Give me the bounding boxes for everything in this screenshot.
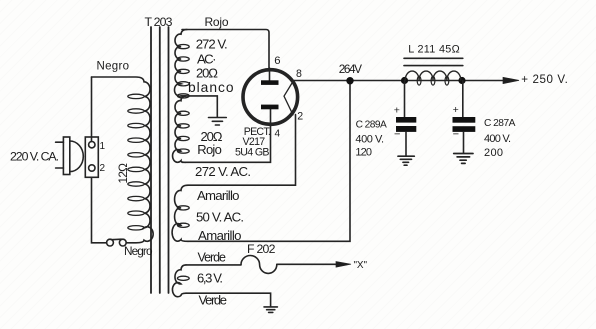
svg-text:Rojo: Rojo: [197, 142, 222, 157]
wire primary bottom to plug: [92, 178, 107, 243]
svg-text:400 V.: 400 V.: [355, 134, 384, 146]
svg-text:blanco: blanco: [188, 80, 234, 95]
svg-text:20Ω: 20Ω: [196, 66, 218, 81]
svg-text:Negro: Negro: [124, 244, 153, 258]
ground C287A: [454, 154, 473, 164]
svg-text:T 203: T 203: [145, 15, 173, 29]
svg-text:Amarillo: Amarillo: [197, 188, 240, 203]
choke loop curls: [417, 76, 449, 85]
Amarillo winding 50V: [172, 185, 188, 241]
HV winding upper curls: [177, 45, 189, 99]
svg-text:5U4 GB: 5U4 GB: [235, 146, 270, 158]
junction node 264V: [346, 77, 353, 84]
svg-text:220 V. CA.: 220 V. CA.: [10, 149, 59, 163]
Amarillo winding curls: [177, 206, 189, 228]
mains plug 220V CA: [56, 137, 99, 177]
svg-text:Amarillo: Amarillo: [198, 228, 242, 243]
ground blanco: [209, 118, 227, 126]
Verde winding curl: [177, 276, 189, 280]
svg-text:50 V. AC.: 50 V. AC.: [196, 210, 244, 225]
svg-text:400 V.: 400 V.: [484, 133, 511, 145]
HV secondary winding lower: [173, 96, 186, 162]
svg-text:Rojo: Rojo: [205, 15, 229, 29]
Verde winding 6.3V: [172, 265, 186, 297]
svg-text:−: −: [394, 129, 400, 141]
fuse F202: [241, 256, 277, 274]
wire blanco center tap to ground: [181, 96, 217, 117]
wire amarillo bottom lead to 264V node: [188, 81, 350, 242]
svg-text:Verde: Verde: [198, 251, 227, 265]
svg-text:272 V. AC.: 272 V. AC.: [195, 164, 251, 179]
tube anode plates: [261, 80, 279, 109]
junction node choke right: [458, 77, 465, 84]
svg-text:12Ω: 12Ω: [116, 163, 130, 184]
svg-text:6,3 V.: 6,3 V.: [197, 271, 223, 286]
rectifier tube V217 5U4-GB envelope: [243, 70, 298, 125]
svg-text:C 289A: C 289A: [356, 120, 387, 131]
svg-text:272 V.: 272 V.: [196, 37, 228, 52]
arrowhead +250V: [503, 77, 519, 83]
svg-text:L 211 45Ω: L 211 45Ω: [408, 43, 460, 55]
svg-text:2: 2: [297, 110, 303, 122]
HV secondary winding upper (272V): [174, 30, 187, 97]
svg-text:Verde: Verde: [199, 293, 228, 308]
svg-text:+ 250 V.: + 250 V.: [521, 73, 568, 86]
svg-text:"X": "X": [354, 260, 368, 271]
primary winding curls: [128, 94, 144, 230]
choke L211 coil: [405, 71, 461, 80]
wire plug top to primary top: [91, 77, 93, 142]
svg-text:+: +: [453, 104, 459, 116]
svg-text:C 287A: C 287A: [484, 118, 516, 129]
wire amarillo top lead to tube pin 2: [188, 115, 296, 186]
svg-text:Negro: Negro: [97, 61, 130, 73]
capacitor C287A: [462, 81, 464, 118]
junction node choke left: [401, 77, 408, 84]
svg-text:8: 8: [296, 68, 302, 80]
wire verde bottom lead to ground: [186, 293, 271, 306]
svg-text:6: 6: [274, 55, 280, 67]
HV winding lower curls: [177, 111, 189, 153]
capacitor C289A: [404, 81, 406, 118]
svg-text:2: 2: [100, 163, 106, 174]
svg-text:+: +: [394, 105, 400, 117]
choke core lines: [404, 57, 463, 59]
svg-text:120: 120: [355, 146, 372, 158]
link between terminals: [112, 238, 122, 241]
terminal circles on primary bottom wire: [107, 239, 114, 246]
main B+ wire pin8 to output: [294, 80, 510, 82]
wire fuse to X arrow: [277, 263, 338, 265]
wire 272V AC bottom lead to tube pin 4: [182, 126, 271, 162]
svg-text:AC·: AC·: [197, 52, 217, 67]
transformer T203 primary winding 12 ohm: [92, 77, 154, 243]
svg-text:1: 1: [100, 141, 106, 152]
tube filament V: [284, 81, 294, 115]
transformer T203 core laminations: [151, 27, 169, 293]
svg-text:200: 200: [484, 147, 503, 159]
svg-text:4: 4: [275, 128, 281, 139]
wire Rojo top to tube pin 6: [182, 30, 269, 69]
svg-text:264V: 264V: [339, 62, 362, 76]
tube anode stems: [269, 68, 271, 81]
arrowhead X: [336, 262, 351, 268]
svg-text:F 202: F 202: [247, 242, 276, 256]
ground C289A: [398, 156, 414, 165]
wire verde top lead to fuse: [186, 264, 241, 266]
ground 6.3V: [264, 307, 277, 313]
svg-text:−: −: [453, 128, 459, 140]
